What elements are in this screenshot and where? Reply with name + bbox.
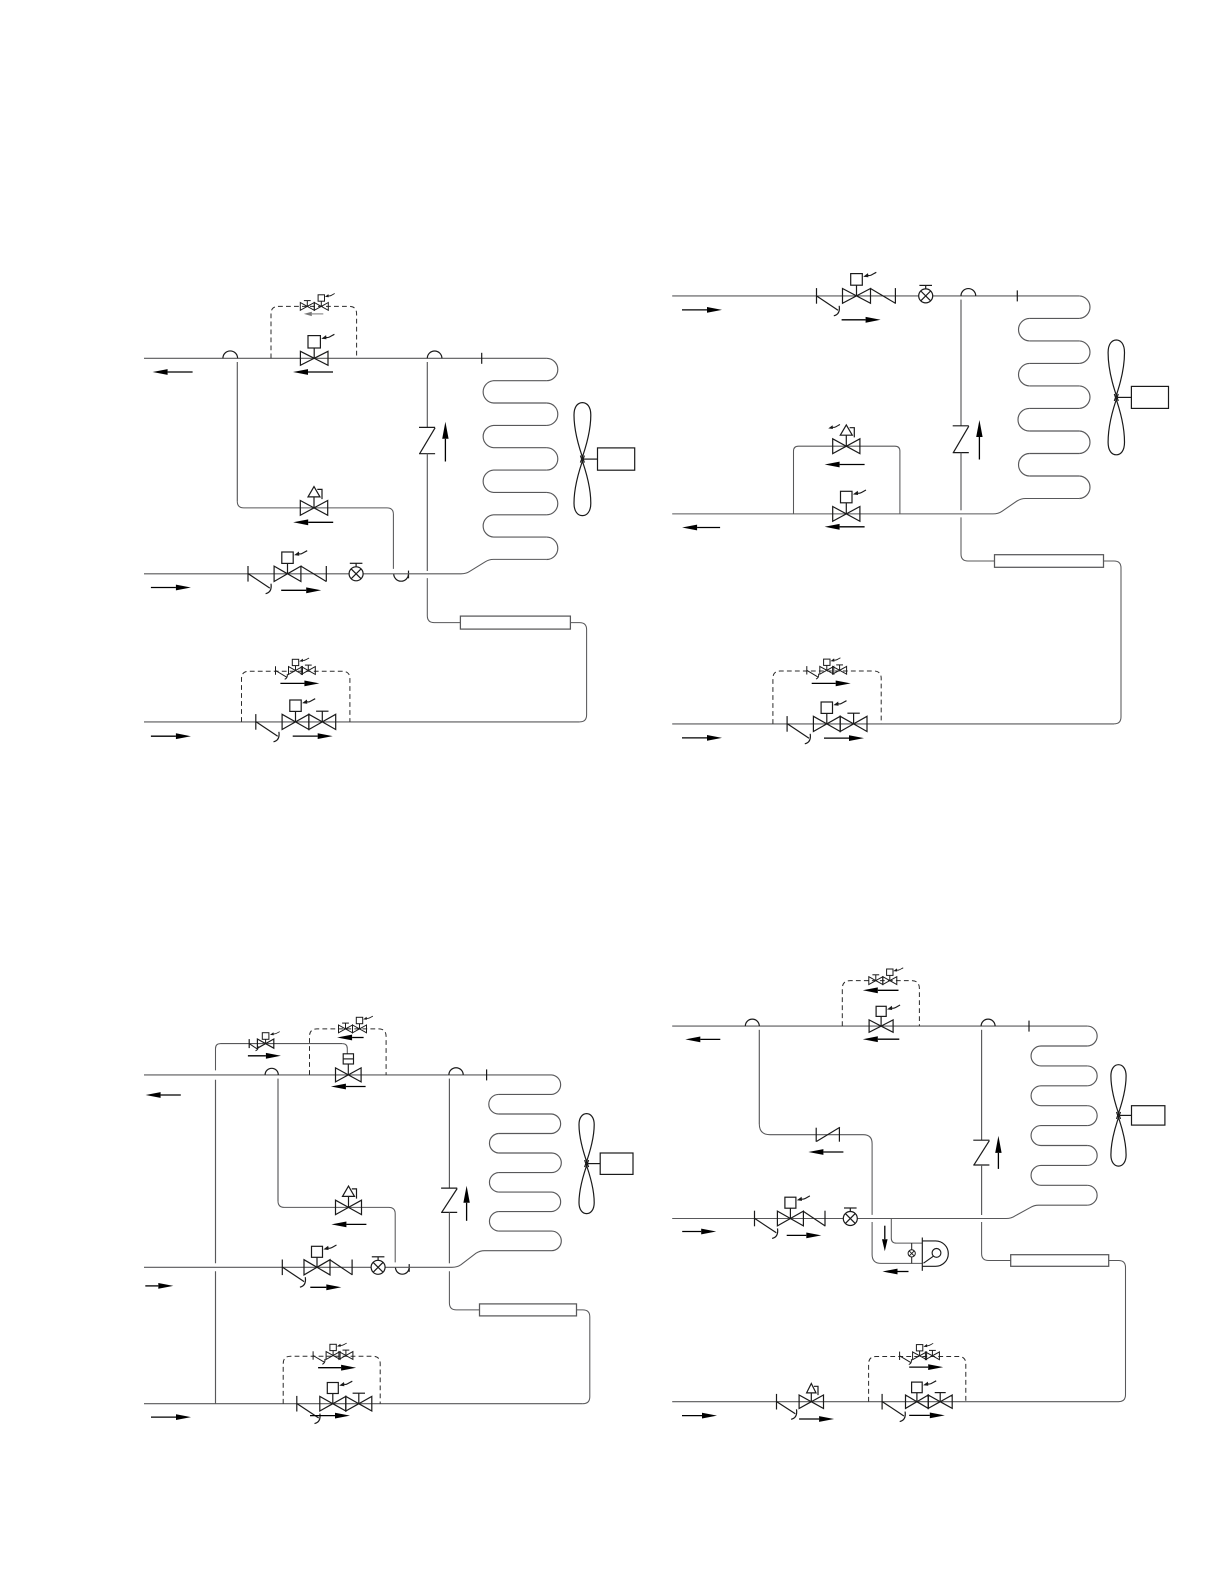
arrow drain flow down (unit 4) <box>882 1226 888 1252</box>
bypass mini valve station (unit 2) <box>807 658 847 679</box>
heat exchanger (unit 2) <box>995 555 1104 568</box>
dashed bypass box on hot-gas line (unit 3) <box>283 1356 380 1404</box>
wire relief bypass loop (unit 2) <box>794 446 900 514</box>
wire suction line (unit 1) <box>144 357 547 359</box>
bypass mini double valve (unit 3) <box>339 1016 373 1033</box>
wire hot-gas bottom line (unit 2) <box>672 723 1114 725</box>
gas-powered suction stop valve (unit 3) <box>336 1054 362 1082</box>
heat exchanger (unit 3) <box>480 1304 577 1316</box>
hot-gas regulating valve with stem (unit 3) <box>346 1393 372 1411</box>
suction stop valve with actuator (unit 2) <box>833 490 866 521</box>
arrow hot-gas flow right (unit 1) <box>151 733 191 739</box>
suction stop valve with actuator (unit 1) <box>300 334 334 365</box>
arrow liquid station flow right (unit 4) <box>787 1233 822 1239</box>
arrow suction flow left (unit 4) <box>685 1037 720 1043</box>
sight glass (unit 1) <box>349 563 363 581</box>
wire riser to heat exchanger (unit 2) <box>961 453 995 561</box>
drain trap orifice (unit 4) <box>908 1243 915 1263</box>
arrow suction flow left at valve (unit 2) <box>825 524 865 530</box>
hot-gas regulating valve with stem (unit 2 bottom) <box>840 713 867 731</box>
wire suction line (unit 2) <box>672 499 1079 514</box>
arrow hot-gas station flow right (unit 2 bottom) <box>824 735 864 741</box>
arrow hot-gas flow right (unit 3) <box>151 1414 191 1420</box>
arrow pilot flow right (unit 3) <box>248 1053 281 1059</box>
arrow hot-gas bottom flow right (unit 2) <box>682 735 722 741</box>
dashed bypass box on hot-gas line (unit 1) <box>242 671 350 722</box>
evaporator coil (unit 3) <box>489 1075 561 1251</box>
pipe loop crossing suction riser (unit 1) <box>427 351 442 427</box>
hot-gas solenoid valve with actuator (unit 3) <box>320 1381 353 1411</box>
arrow bypass flow left (unit 4 suction) <box>863 987 899 993</box>
sight glass (unit 3) <box>371 1257 385 1275</box>
pipe loop crossing riser (unit 2) <box>961 289 976 426</box>
wire riser to heat exchanger (unit 3) <box>449 1212 479 1310</box>
fan with motor (unit 4) <box>1111 1065 1165 1166</box>
wire heat exchanger outlet drop (unit 4) <box>1109 1261 1126 1402</box>
arrow branch flow left (unit 3) <box>331 1222 366 1228</box>
hot-gas hand valve slash and tick (unit 2) <box>871 288 896 304</box>
arrow bypass flow right (unit 1 hot-gas) <box>280 681 319 687</box>
arrow main suction flow left (unit 1) <box>293 369 333 375</box>
arrow main suction flow left (unit 3) <box>331 1084 366 1090</box>
hot-gas service valve tick (unit 4) <box>882 1394 905 1422</box>
dashed bypass box on hot-gas line (unit 4) <box>869 1357 966 1402</box>
arrow suction flow left (unit 2) <box>682 525 720 531</box>
wire check-valve branch (unit 1) <box>237 501 393 569</box>
pipe loop crossing to branch riser (unit 3) <box>265 1068 278 1201</box>
pipe loop crossing to branch riser (unit 1) <box>223 351 238 501</box>
wire suction line (unit 3) <box>144 1074 552 1076</box>
liquid service valve tick (unit 3) <box>282 1260 305 1288</box>
arrow trap outlet flow left (unit 4) <box>883 1269 909 1275</box>
relief regulator valve (unit 2) <box>828 425 860 454</box>
swing check valve (unit 4) <box>816 1127 840 1141</box>
arrow bypass flow right (unit 4) <box>909 1364 943 1370</box>
arrow liquid flow right (unit 1) <box>151 585 191 591</box>
hot-gas service valve tick (unit 1) <box>256 714 279 742</box>
arrow liquid flow right (unit 3) <box>145 1283 173 1289</box>
liquid service valve tick (unit 1) <box>248 566 271 594</box>
arrow bypass flow left (unit 2) <box>825 462 865 468</box>
wire hot-gas line (unit 1) <box>144 721 580 723</box>
wire pilot gas riser (unit 3) <box>216 1044 221 1404</box>
liquid service valve tick (unit 4) <box>755 1211 778 1239</box>
arrow hot-gas station flow right (unit 3) <box>310 1413 350 1419</box>
pipe loop under liquid line (unit 3) <box>395 1264 409 1274</box>
arrow hot-gas station flow right (unit 4) <box>909 1413 945 1419</box>
arrow suction flow left (unit 1) <box>153 369 193 375</box>
evaporator coil (unit 4) <box>1031 1026 1097 1205</box>
wire liquid line (unit 3) <box>144 1251 552 1268</box>
wire suction riser to heat exchanger (unit 1) <box>427 454 460 623</box>
arrow hot-gas station flow right (unit 2) <box>842 317 881 323</box>
evaporator coil (unit 2) <box>1018 296 1090 499</box>
arrow main suction flow left (unit 4) <box>863 1036 900 1042</box>
wire pilot line (unit 3) <box>221 1044 348 1054</box>
sight glass (unit 4) <box>843 1208 857 1226</box>
dashed bypass box on suction line (unit 4) <box>842 981 919 1027</box>
arrow liquid station flow right (unit 1) <box>281 587 321 593</box>
arrow hot-gas station flow right (unit 1) <box>293 733 333 739</box>
arrow branch flow left (unit 1) <box>293 519 333 525</box>
suction pressure regulator Z symbol (unit 2) <box>953 426 969 453</box>
arrow branch flow left (unit 4) <box>808 1149 843 1155</box>
fan with motor (unit 2) <box>1108 340 1168 455</box>
hot-gas solenoid valve with actuator (unit 2) <box>843 272 877 303</box>
liquid solenoid valve with actuator (unit 1) <box>274 551 307 582</box>
arrow bypass flow right (unit 3) <box>318 1365 356 1371</box>
wire riser to heat exchanger (unit 4) <box>982 1165 1011 1261</box>
heat exchanger (unit 4) <box>1011 1255 1109 1267</box>
suction pressure regulator Z symbol (unit 4) <box>973 1140 989 1165</box>
liquid hand valve slash and tick (unit 1) <box>301 566 326 582</box>
wire heat exchanger outlet drop (unit 3) <box>577 1310 590 1404</box>
liquid solenoid valve with actuator (unit 4) <box>777 1196 810 1226</box>
evaporator coil (unit 1) <box>483 358 558 559</box>
hot-gas service valve tick (unit 2) <box>817 288 840 316</box>
wire check-valve branch (unit 3) <box>278 1201 395 1262</box>
arrow riser flow up (unit 1) <box>442 422 448 462</box>
check valve with relief top (unit 3) <box>336 1186 362 1215</box>
sight glass (unit 2) <box>919 285 933 303</box>
suction pressure regulator Z symbol (unit 3) <box>441 1188 457 1212</box>
wire branch drop to drain trap (unit 4) <box>872 1222 922 1263</box>
wire suction line (unit 4) <box>672 1025 1087 1027</box>
pipe loop under liquid line (unit 1) <box>394 571 409 582</box>
suction stop valve with actuator (unit 4) <box>869 1005 900 1032</box>
liquid hand valve slash and tick (unit 3) <box>330 1260 352 1276</box>
arrow bypass flow right (unit 2) <box>812 681 851 687</box>
dashed bypass box on suction line (unit 1) <box>271 306 357 358</box>
fan with motor (unit 1) <box>574 403 635 516</box>
hot-gas service valve tick (unit 3) <box>297 1396 320 1424</box>
bypass mini valve station (unit 3) <box>313 1343 353 1364</box>
dashed bypass box on suction line (unit 3) <box>310 1029 387 1075</box>
arrow suction flow left (unit 3) <box>146 1092 181 1098</box>
arrow bypass flow left (unit 3) <box>337 1035 364 1041</box>
hot-gas regulating valve with stem (unit 1) <box>309 711 336 729</box>
fan with motor (unit 3) <box>579 1114 633 1214</box>
arrow relief flow right (unit 4) <box>799 1416 834 1422</box>
wire hot-gas top line (unit 2) <box>672 295 1079 297</box>
bypass mini double valve (unit 1 suction) <box>300 294 334 311</box>
hot-gas regulating valve with stem (unit 4) <box>928 1393 952 1409</box>
hot-gas relief regulator (unit 4) <box>777 1384 824 1420</box>
wire heat exchanger outlet drop (unit 2) <box>1104 561 1122 724</box>
hot-gas solenoid valve with actuator (unit 2 bottom) <box>813 701 846 732</box>
arrow hot-gas flow right (unit 2) <box>682 307 722 313</box>
hot-gas service valve tick (unit 2 bottom) <box>787 716 810 744</box>
wire liquid line (unit 1) <box>144 559 547 573</box>
heat exchanger (unit 1) <box>460 616 570 629</box>
suction pressure regulator Z symbol (unit 1) <box>419 427 435 453</box>
wire liquid line (unit 4) <box>672 1205 1087 1218</box>
drain trap float chamber (unit 4) <box>922 1238 948 1271</box>
hot-gas solenoid valve with actuator (unit 1) <box>282 699 315 730</box>
bypass mini valve station (unit 1 hot-gas) <box>276 658 316 679</box>
wire swing-check branch (unit 4) <box>759 1124 872 1215</box>
bypass mini double valve (unit 4 suction) <box>869 968 903 985</box>
pipe loop crossing to branch riser (unit 4) <box>745 1019 759 1124</box>
arrow bypass flow left (unit 1 suction) <box>304 312 324 316</box>
pilot valve (unit 3) <box>249 1032 280 1051</box>
wire liquid drop to drain trap (unit 4) <box>891 1219 922 1244</box>
coil inlet weld tick (unit 1) <box>481 353 483 364</box>
liquid solenoid valve with actuator (unit 3) <box>304 1245 337 1275</box>
pipe loop crossing riser (unit 4) <box>981 1019 995 1140</box>
check valve with relief top (unit 1) <box>300 487 327 516</box>
wire hot-gas line (unit 4) <box>672 1401 1118 1403</box>
bypass mini valve station (unit 4) <box>900 1343 940 1364</box>
arrow riser flow up (unit 4) <box>995 1136 1001 1169</box>
pipe loop crossing suction riser (unit 3) <box>449 1068 463 1188</box>
dashed bypass box on hot-gas line (unit 2) <box>773 671 881 724</box>
coil inlet weld tick (unit 4) <box>1028 1021 1030 1032</box>
coil inlet weld tick (unit 2) <box>1016 290 1018 301</box>
arrow liquid flow right (unit 4) <box>682 1229 716 1235</box>
hot-gas solenoid valve with actuator (unit 4) <box>906 1381 937 1409</box>
arrow riser flow up (unit 3) <box>463 1186 469 1221</box>
wire heat exchanger outlet drop (unit 1) <box>570 623 586 722</box>
coil inlet weld tick (unit 3) <box>486 1069 488 1080</box>
arrow riser flow up (unit 2) <box>976 420 982 460</box>
arrow hot-gas flow right (unit 4) <box>682 1413 717 1419</box>
wire hot-gas line (unit 3) <box>144 1403 583 1405</box>
arrow liquid station flow right (unit 3) <box>310 1284 341 1290</box>
liquid hand valve slash and tick (unit 4) <box>803 1211 825 1227</box>
